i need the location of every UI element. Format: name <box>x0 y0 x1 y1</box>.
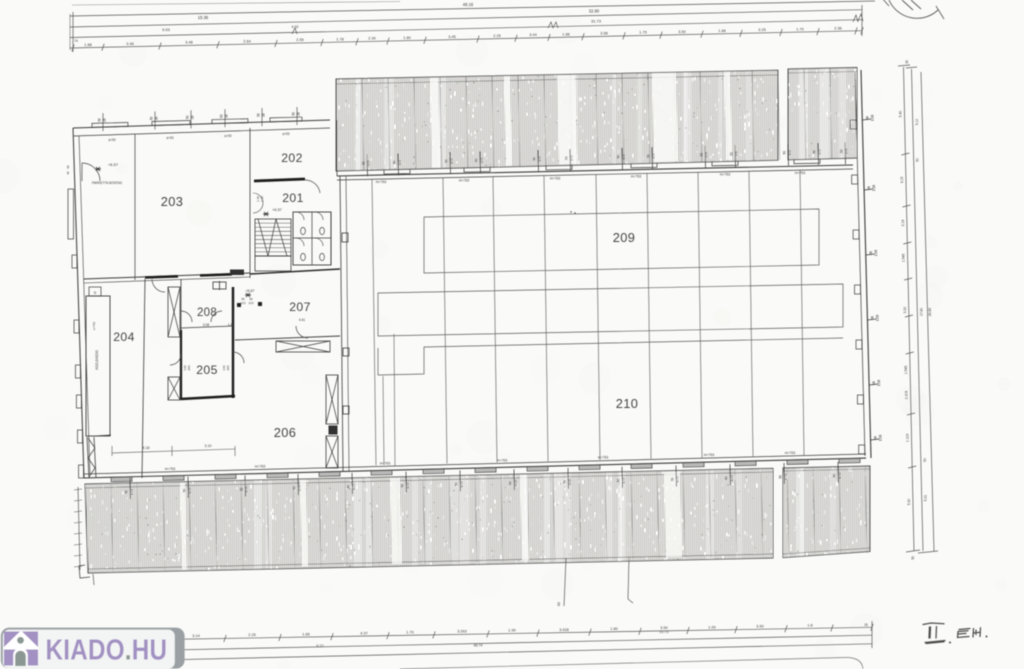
svg-text:1.75: 1.75 <box>639 31 646 35</box>
svg-text:1.08: 1.08 <box>877 380 881 386</box>
svg-text:175: 175 <box>367 160 371 166</box>
svg-text:50: 50 <box>617 479 621 483</box>
svg-text:1.75: 1.75 <box>514 480 518 486</box>
svg-text:50: 50 <box>362 161 366 165</box>
svg-text:m=763: m=763 <box>598 456 609 460</box>
svg-text:m=763: m=763 <box>165 467 176 471</box>
svg-text:50: 50 <box>911 556 915 560</box>
svg-text:50: 50 <box>730 152 734 156</box>
svg-text:48.74: 48.74 <box>474 644 483 648</box>
svg-text:50: 50 <box>98 118 102 122</box>
svg-text:1.75: 1.75 <box>298 485 302 491</box>
svg-text:205: 205 <box>196 363 218 377</box>
svg-text:9.93: 9.93 <box>162 27 171 32</box>
svg-text:50: 50 <box>725 476 729 480</box>
svg-text:3.48: 3.48 <box>185 41 192 45</box>
svg-text:40: 40 <box>66 171 70 175</box>
svg-text:50: 50 <box>475 158 479 162</box>
svg-text:2.64: 2.64 <box>243 39 250 43</box>
svg-text:50: 50 <box>150 116 154 120</box>
svg-text:1.70: 1.70 <box>796 27 803 31</box>
svg-text:50: 50 <box>671 477 675 481</box>
svg-text:3.50: 3.50 <box>756 624 763 628</box>
svg-text:3.25: 3.25 <box>758 28 765 32</box>
svg-text:2.19: 2.19 <box>901 220 905 227</box>
svg-text:1.119: 1.119 <box>906 434 910 442</box>
svg-text:1.08: 1.08 <box>872 185 876 191</box>
svg-text:175: 175 <box>705 152 709 158</box>
svg-text:98: 98 <box>869 251 873 255</box>
svg-text:1.545: 1.545 <box>902 254 906 263</box>
svg-text:1.75: 1.75 <box>676 476 680 482</box>
svg-text:a=90: a=90 <box>282 132 289 136</box>
svg-text:175: 175 <box>480 158 484 164</box>
svg-text:1.08: 1.08 <box>875 315 879 321</box>
svg-text:1.75: 1.75 <box>406 482 410 488</box>
svg-text:1.88: 1.88 <box>84 43 91 47</box>
svg-text:50: 50 <box>647 154 651 158</box>
svg-text:50: 50 <box>293 486 297 490</box>
svg-text:1.08: 1.08 <box>874 250 878 256</box>
svg-text:50: 50 <box>125 490 129 494</box>
svg-text:26: 26 <box>297 112 301 116</box>
svg-text:5.30: 5.30 <box>907 499 911 506</box>
svg-text:50: 50 <box>563 480 567 484</box>
svg-text:50: 50 <box>445 159 449 163</box>
svg-text:207: 207 <box>289 300 311 314</box>
svg-text:98: 98 <box>865 116 869 120</box>
svg-text:31.73: 31.73 <box>591 19 602 24</box>
svg-text:3.45: 3.45 <box>448 35 455 39</box>
svg-text:1.08: 1.08 <box>879 435 883 441</box>
svg-text:50: 50 <box>783 151 787 155</box>
svg-text:m=763: m=763 <box>785 451 796 455</box>
svg-text:202: 202 <box>281 151 303 165</box>
svg-text:3.08: 3.08 <box>203 323 210 327</box>
svg-text:50: 50 <box>401 484 405 488</box>
svg-text:1.75: 1.75 <box>568 479 572 485</box>
svg-text:PARKETTA BONTAS: PARKETTA BONTAS <box>92 181 122 185</box>
svg-text:206: 206 <box>274 425 297 440</box>
svg-text:203: 203 <box>161 194 184 209</box>
svg-text:98: 98 <box>872 381 876 385</box>
svg-text:2.55: 2.55 <box>296 38 303 42</box>
svg-text:98: 98 <box>870 316 874 320</box>
svg-text:m=763: m=763 <box>255 464 266 468</box>
svg-text:u=762: u=762 <box>92 321 96 330</box>
svg-text:2.10: 2.10 <box>260 196 264 202</box>
svg-text:a=90: a=90 <box>108 138 115 142</box>
svg-text:50: 50 <box>240 487 244 491</box>
svg-text:m=763: m=763 <box>380 461 391 465</box>
svg-text:1.75: 1.75 <box>730 475 734 481</box>
svg-text:1.90: 1.90 <box>508 629 515 633</box>
svg-text:175: 175 <box>570 155 574 161</box>
svg-text:50: 50 <box>183 489 187 493</box>
svg-text:4.41: 4.41 <box>299 318 306 322</box>
svg-text:210: 210 <box>616 396 639 411</box>
svg-text:26: 26 <box>262 113 266 117</box>
svg-text:2.25: 2.25 <box>493 34 500 38</box>
svg-text:204: 204 <box>113 330 135 344</box>
svg-text:50: 50 <box>617 155 621 159</box>
svg-text:1.75: 1.75 <box>352 484 356 490</box>
svg-text:48.16: 48.16 <box>463 2 474 7</box>
svg-text:3.58: 3.58 <box>600 32 607 36</box>
svg-text:3.263: 3.263 <box>457 630 467 634</box>
svg-text:175: 175 <box>652 153 656 159</box>
svg-text:50: 50 <box>565 156 569 160</box>
svg-text:m=763: m=763 <box>795 171 806 175</box>
svg-text:175: 175 <box>818 149 822 155</box>
svg-text:50: 50 <box>923 458 927 462</box>
svg-text:50: 50 <box>509 481 513 485</box>
svg-text:3.428: 3.428 <box>559 628 569 632</box>
svg-text:50: 50 <box>700 153 704 157</box>
svg-text:1.8: 1.8 <box>807 624 812 628</box>
svg-text:1.75: 1.75 <box>245 486 249 492</box>
svg-text:50: 50 <box>813 150 817 154</box>
svg-text:50: 50 <box>257 113 261 117</box>
svg-text:3.30: 3.30 <box>903 307 907 314</box>
svg-text:3.10: 3.10 <box>205 444 212 448</box>
svg-text:a=90: a=90 <box>166 136 173 140</box>
svg-text:175: 175 <box>398 160 402 166</box>
svg-text:175: 175 <box>622 154 626 160</box>
svg-text:26: 26 <box>225 114 229 118</box>
svg-text:+8.87: +8.87 <box>245 289 254 293</box>
svg-text:3.50: 3.50 <box>678 30 685 34</box>
svg-text:1.75: 1.75 <box>838 472 842 478</box>
svg-text:KOZLEKEDO: KOZLEKEDO <box>95 350 99 370</box>
svg-text:1.08: 1.08 <box>870 115 874 121</box>
svg-text:m=763: m=763 <box>720 173 731 177</box>
svg-text:m=763: m=763 <box>459 178 470 182</box>
svg-text:60: 60 <box>557 602 561 606</box>
svg-text:4.37: 4.37 <box>360 631 367 635</box>
svg-text:3.04: 3.04 <box>529 33 536 37</box>
svg-text:S: S <box>94 290 97 295</box>
svg-text:201: 201 <box>282 191 304 205</box>
svg-text:50: 50 <box>186 115 190 119</box>
svg-text:1.00: 1.00 <box>708 625 715 629</box>
svg-text:21.73: 21.73 <box>660 630 669 634</box>
svg-text:50: 50 <box>840 149 844 153</box>
svg-text:17.80: 17.80 <box>919 308 923 317</box>
svg-text:1.78: 1.78 <box>336 37 343 41</box>
svg-text:50: 50 <box>66 165 70 169</box>
svg-text:50: 50 <box>292 112 296 116</box>
svg-text:50: 50 <box>393 160 397 164</box>
svg-text:50: 50 <box>347 485 351 489</box>
svg-text:26: 26 <box>103 118 107 122</box>
svg-text:200: 200 <box>187 365 191 370</box>
svg-text:32.80: 32.80 <box>589 9 600 14</box>
svg-text:208: 208 <box>197 307 217 319</box>
svg-text:3.15: 3.15 <box>900 177 904 184</box>
svg-text:2.25: 2.25 <box>248 633 255 637</box>
svg-text:175: 175 <box>788 150 792 156</box>
svg-text:50: 50 <box>833 474 837 478</box>
svg-text:175: 175 <box>538 156 542 162</box>
svg-text:50: 50 <box>220 114 224 118</box>
svg-text:4.18: 4.18 <box>143 446 150 450</box>
svg-text:50: 50 <box>916 158 920 162</box>
svg-text:50: 50 <box>533 157 537 161</box>
svg-text:m=763: m=763 <box>631 175 642 179</box>
svg-text:6.12: 6.12 <box>317 644 324 648</box>
svg-text:1.75: 1.75 <box>130 489 134 495</box>
svg-text:210: 210 <box>248 301 253 305</box>
svg-text:m=763: m=763 <box>376 180 387 184</box>
svg-text:1.80: 1.80 <box>403 36 410 40</box>
svg-text:20: 20 <box>905 60 909 64</box>
svg-text:1.75: 1.75 <box>622 477 626 483</box>
svg-text:200: 200 <box>226 365 230 370</box>
svg-text:2.30: 2.30 <box>368 37 375 41</box>
svg-text:175: 175 <box>845 148 849 154</box>
svg-text:50: 50 <box>455 482 459 486</box>
svg-text:1.75: 1.75 <box>188 487 192 493</box>
svg-text:1.545: 1.545 <box>904 366 908 375</box>
svg-text:3.14: 3.14 <box>192 634 199 638</box>
svg-text:98: 98 <box>874 436 878 440</box>
svg-text:+6.57: +6.57 <box>272 208 282 212</box>
svg-text:KIADO.HU: KIADO.HU <box>46 634 168 666</box>
svg-text:2.36: 2.36 <box>834 26 841 30</box>
svg-text:5.40: 5.40 <box>899 111 903 118</box>
svg-text:98: 98 <box>867 186 871 190</box>
svg-text:209: 209 <box>613 230 636 245</box>
svg-text:1.65: 1.65 <box>302 632 309 636</box>
svg-text:1.80: 1.80 <box>610 627 617 631</box>
svg-text:210: 210 <box>240 301 245 305</box>
svg-text:26: 26 <box>191 115 195 119</box>
svg-text:175: 175 <box>735 151 739 157</box>
svg-text:1.75: 1.75 <box>460 481 464 487</box>
svg-text:175: 175 <box>450 158 454 164</box>
svg-text:m=763: m=763 <box>550 176 561 180</box>
svg-text:m=763: m=763 <box>704 453 715 457</box>
svg-text:15.36: 15.36 <box>198 15 209 20</box>
svg-text:26: 26 <box>155 116 159 120</box>
svg-text:50: 50 <box>779 475 783 479</box>
svg-text:5.21: 5.21 <box>924 495 928 502</box>
svg-text:74: 74 <box>74 39 78 43</box>
svg-text:1.70: 1.70 <box>406 630 413 634</box>
svg-text:1.75: 1.75 <box>784 474 788 480</box>
svg-text:1.80: 1.80 <box>228 323 235 327</box>
